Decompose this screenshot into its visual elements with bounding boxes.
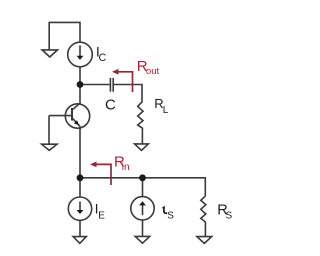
node C (source node) xyxy=(139,174,146,181)
wire IC to node A xyxy=(79,67,81,85)
capacitor C xyxy=(110,78,113,92)
ground (Q1 base) xyxy=(42,144,57,150)
svg-text:C: C xyxy=(105,97,116,114)
svg-text:in: in xyxy=(122,162,130,173)
svg-text:E: E xyxy=(98,211,105,222)
wire iS to ground xyxy=(142,220,144,236)
ground (below RL) xyxy=(135,144,149,151)
transistor Q1 xyxy=(65,104,89,128)
current source IC xyxy=(68,42,93,67)
svg-text:S: S xyxy=(226,211,233,222)
ground (below IE) xyxy=(73,237,86,244)
arrowhead of iS source xyxy=(139,201,146,205)
current source iS xyxy=(131,197,154,220)
current source IE xyxy=(68,197,91,220)
wire node B to IE xyxy=(79,178,81,197)
svg-text:C: C xyxy=(99,52,107,64)
ground (below iS) xyxy=(135,236,150,243)
svg-text:L: L xyxy=(163,105,169,116)
node A (collector node) xyxy=(77,81,84,88)
wire node A to capacitor xyxy=(80,84,110,86)
wire IE to ground xyxy=(79,220,81,236)
ground (below RS) xyxy=(197,237,212,244)
svg-text:S: S xyxy=(167,210,174,221)
wire node B to node C to RS xyxy=(80,178,205,196)
Rout arrowhead xyxy=(112,69,119,75)
ground (top left) xyxy=(42,50,57,57)
Rout measurement arrow xyxy=(114,72,133,92)
wire base to ground xyxy=(48,116,50,145)
emitter arrowhead Q1 xyxy=(74,120,79,125)
svg-text:out: out xyxy=(146,66,160,77)
Rin arrowhead xyxy=(90,162,97,168)
resistor RL xyxy=(138,102,143,144)
label iS (iota glyph) xyxy=(163,207,168,213)
arrowhead of IE source xyxy=(77,210,84,214)
wire node A to Q1 collector xyxy=(79,85,81,104)
wire Q1 base xyxy=(49,115,72,117)
wire from top ground to IC source xyxy=(49,22,80,50)
node B (emitter node) xyxy=(77,174,84,181)
wire Q1 emitter to node B xyxy=(79,127,81,178)
wire node C to iS xyxy=(142,178,144,197)
Rin measurement arrow xyxy=(92,164,111,185)
resistor RS xyxy=(201,196,206,237)
wire capacitor to RL xyxy=(114,85,142,102)
arrowhead of IC source xyxy=(77,56,84,60)
